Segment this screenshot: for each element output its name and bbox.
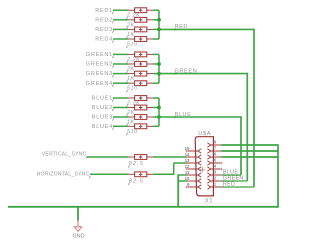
junction xyxy=(157,28,161,32)
wire xyxy=(153,82,159,84)
wire xyxy=(153,53,159,55)
connector U$A body xyxy=(195,137,213,196)
wire pin10 to gnd xyxy=(178,180,186,182)
wire xyxy=(87,156,128,158)
svg-text:RED: RED xyxy=(223,182,235,188)
pin 8 xyxy=(213,144,221,146)
svg-text:GREEN4: GREEN4 xyxy=(86,81,113,87)
svg-text:12: 12 xyxy=(185,164,190,169)
svg-text:GREEN3: GREEN3 xyxy=(86,71,113,77)
svg-text:1: 1 xyxy=(214,182,217,187)
pin 15 xyxy=(187,150,197,152)
pin 3 xyxy=(213,174,221,176)
wire xyxy=(113,97,128,99)
wire xyxy=(153,156,187,158)
resistor BLUE3 1K xyxy=(128,116,134,118)
pin end cross xyxy=(185,150,187,152)
svg-text:RED4: RED4 xyxy=(95,37,113,43)
wire gnd rail xyxy=(8,206,279,208)
resistor vertical sync 82.5 xyxy=(128,156,134,158)
svg-text:RED1: RED1 xyxy=(95,8,113,14)
svg-text:4: 4 xyxy=(214,164,217,169)
wire xyxy=(113,73,128,75)
resistor BLUE2 2K xyxy=(128,107,134,109)
wire xyxy=(153,97,159,99)
pin 5 xyxy=(213,162,221,164)
svg-text:14: 14 xyxy=(185,152,190,157)
svg-text:1K: 1K xyxy=(127,120,135,126)
wire xyxy=(113,19,128,21)
wire pin7 return xyxy=(222,150,279,152)
pin 12 xyxy=(187,168,197,170)
wire GREEN drop xyxy=(246,73,248,181)
svg-text:10: 10 xyxy=(185,176,190,181)
wire xyxy=(113,107,128,109)
resistor horizontal sync 82.5 xyxy=(128,173,134,175)
svg-text:X1: X1 xyxy=(205,199,214,205)
svg-text:1K: 1K xyxy=(127,76,135,82)
wire xyxy=(153,38,159,40)
wire xyxy=(153,73,159,75)
wire xyxy=(174,162,187,164)
svg-text:510: 510 xyxy=(127,86,138,92)
pin end cross xyxy=(220,168,222,170)
resistor RED1 2.2K xyxy=(128,9,134,11)
wire xyxy=(113,63,128,65)
svg-text:510: 510 xyxy=(127,129,138,135)
pin 2 xyxy=(213,180,221,182)
resistor GREEN4 510 xyxy=(128,82,134,84)
wire GREEN out xyxy=(159,73,247,75)
svg-text:BLUE3: BLUE3 xyxy=(92,115,113,121)
svg-text:GND: GND xyxy=(72,233,84,239)
wire pin8 return xyxy=(222,144,279,146)
wire GREEN to pin xyxy=(222,180,248,182)
bus wire GREEN xyxy=(158,54,160,83)
svg-text:VERTICAL_SYNC: VERTICAL_SYNC xyxy=(42,152,87,158)
resistor RED4 510 xyxy=(128,38,134,40)
wire xyxy=(173,163,175,175)
resistor GREEN3 1K xyxy=(128,73,134,75)
wire xyxy=(153,63,159,65)
pin 6 xyxy=(213,156,221,158)
svg-text:GREEN2: GREEN2 xyxy=(86,62,113,68)
pin 11 xyxy=(187,174,197,176)
svg-text:RED3: RED3 xyxy=(95,27,113,33)
pin end cross xyxy=(185,168,187,170)
svg-text:11: 11 xyxy=(185,170,190,175)
wire xyxy=(113,125,128,127)
wire return drop xyxy=(277,146,279,207)
pin 13 xyxy=(187,162,197,164)
svg-text:RED2: RED2 xyxy=(95,17,113,23)
svg-text:82.5: 82.5 xyxy=(129,179,144,185)
wire xyxy=(113,53,128,55)
svg-text:9: 9 xyxy=(187,182,190,187)
wire xyxy=(153,173,174,175)
svg-text:7: 7 xyxy=(214,146,217,151)
wire xyxy=(113,116,128,118)
wire xyxy=(113,28,128,30)
svg-text:510: 510 xyxy=(127,42,138,48)
wire xyxy=(153,28,159,30)
svg-text:BLUE2: BLUE2 xyxy=(92,105,113,111)
svg-text:BLUE4: BLUE4 xyxy=(92,124,113,130)
wire xyxy=(113,82,128,84)
wire BLUE drop xyxy=(240,116,242,175)
resistor BLUE1 2.2K xyxy=(128,97,134,99)
resistor BLUE4 510 xyxy=(128,125,134,127)
junction xyxy=(157,18,161,22)
pin 10 xyxy=(187,180,197,182)
resistor GREEN2 2K xyxy=(128,63,134,65)
wire xyxy=(90,173,128,175)
svg-text:2: 2 xyxy=(214,176,217,181)
bus wire RED xyxy=(158,10,160,39)
wire gnd drop xyxy=(177,174,179,206)
wire gnd stub xyxy=(77,207,79,221)
wire xyxy=(153,19,159,21)
svg-text:82.5: 82.5 xyxy=(129,161,144,167)
wire xyxy=(153,107,159,109)
svg-text:8: 8 xyxy=(214,140,217,145)
svg-text:5: 5 xyxy=(214,158,217,163)
resistor RED3 1K xyxy=(128,28,134,30)
svg-text:1K: 1K xyxy=(127,32,135,38)
svg-text:13: 13 xyxy=(185,158,190,163)
junction xyxy=(157,62,161,66)
resistor GREEN1 2.2K xyxy=(128,53,134,55)
bus wire BLUE xyxy=(158,98,160,126)
pin 9 xyxy=(187,186,197,188)
wire RED drop xyxy=(253,29,255,187)
svg-text:U$A: U$A xyxy=(198,131,211,137)
wire xyxy=(153,116,159,118)
wire BLUE to pin xyxy=(222,174,242,176)
connector origin cross xyxy=(200,167,205,172)
wire BLUE out xyxy=(159,116,241,118)
pin 7 xyxy=(213,150,221,152)
wire pin11 to gnd xyxy=(178,174,186,176)
pin end cross xyxy=(185,186,187,188)
resistor RED2 2K xyxy=(128,19,134,21)
svg-text:15: 15 xyxy=(185,146,190,151)
svg-text:GREEN1: GREEN1 xyxy=(86,52,113,58)
svg-text:6: 6 xyxy=(214,152,217,157)
wire xyxy=(153,9,159,11)
junction xyxy=(157,72,161,76)
pin 1 xyxy=(213,186,221,188)
wire xyxy=(153,125,159,127)
wire xyxy=(113,38,128,40)
wire RED out xyxy=(159,28,254,30)
svg-text:BLUE1: BLUE1 xyxy=(92,96,113,102)
svg-text:HORIZONTAL_SYNC: HORIZONTAL_SYNC xyxy=(37,172,90,178)
pin 14 xyxy=(187,156,197,158)
junction xyxy=(157,115,161,119)
wire RED to pin xyxy=(222,186,255,188)
pin 4 xyxy=(213,168,221,170)
wire pin6 return xyxy=(222,156,279,158)
svg-text:3: 3 xyxy=(214,170,217,175)
wire xyxy=(113,9,128,11)
pin end cross xyxy=(220,162,222,164)
ground GND xyxy=(77,220,79,228)
junction xyxy=(157,106,161,110)
